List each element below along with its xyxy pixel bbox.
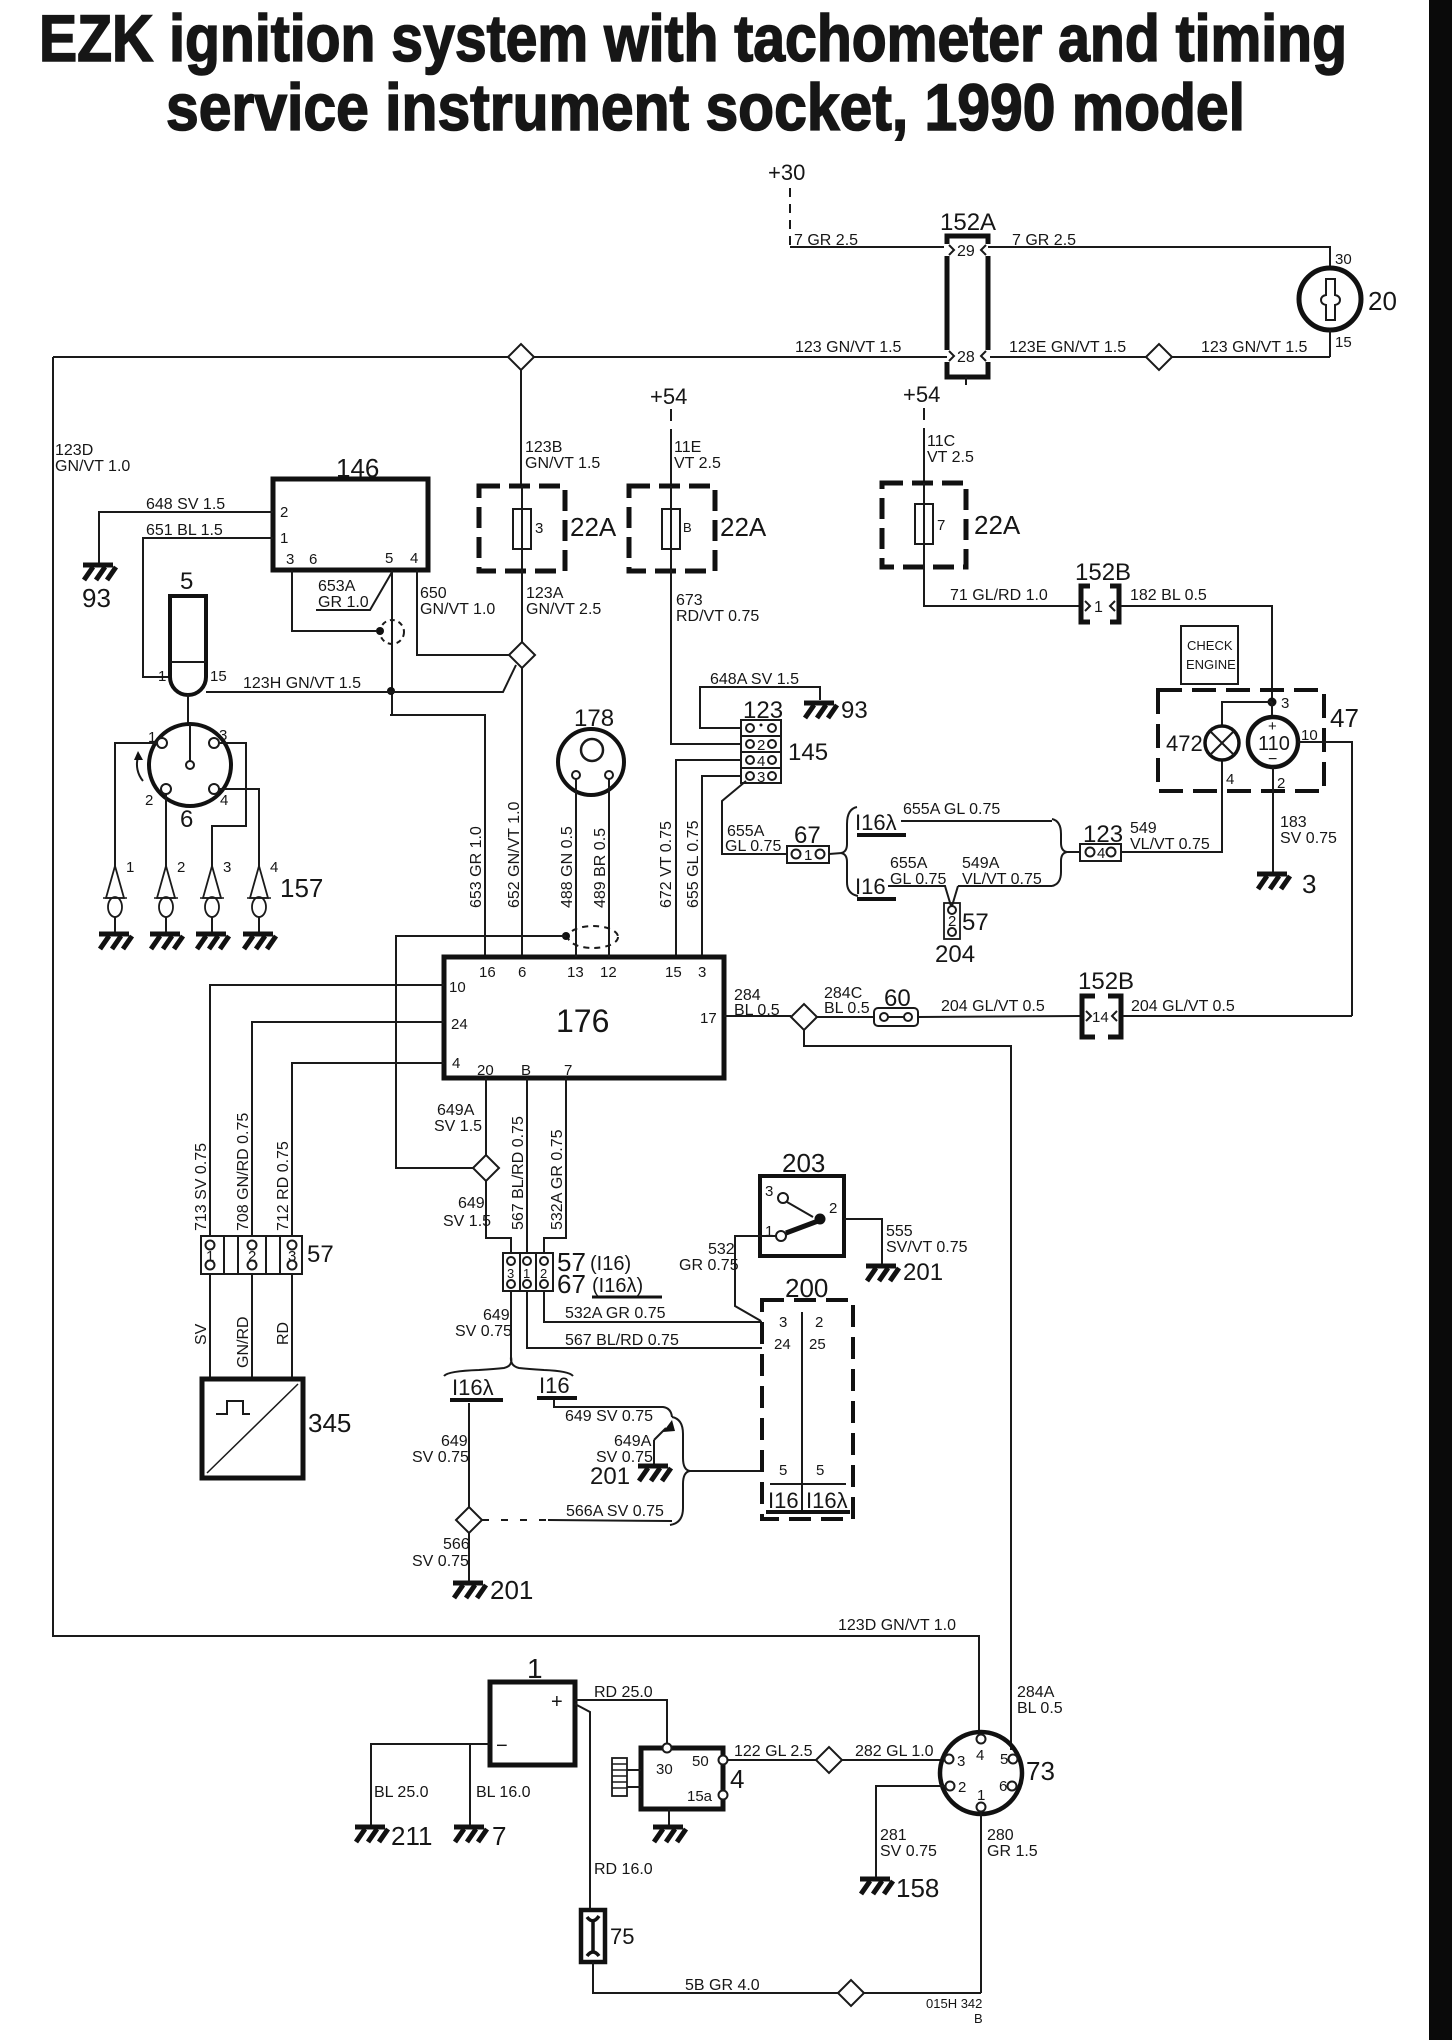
wire 5B GR 4.0	[593, 1962, 981, 1994]
wire 71 GL/RD 1.0	[924, 567, 1079, 606]
ground plug 1	[99, 934, 132, 949]
svg-text:650: 650	[420, 585, 447, 602]
svg-text:4: 4	[976, 1747, 984, 1764]
svg-text:CHECK: CHECK	[1187, 638, 1233, 653]
wire 655A GL 0.75 lower branch	[888, 855, 951, 906]
fuse holder 22A no.B	[629, 486, 767, 571]
svg-text:713 SV 0.75: 713 SV 0.75	[193, 1143, 210, 1231]
svg-text:EZK ignition system with tacho: EZK ignition system with tachometer and …	[39, 1, 1347, 75]
wire BL 25.0	[371, 1744, 490, 1825]
ignition starter switch 4	[641, 1744, 744, 1810]
wire 123B GN/VT 1.5	[521, 370, 600, 486]
ground 201 (bottom left)	[453, 1575, 533, 1605]
drawing number 015H 342 B	[926, 1996, 983, 2026]
svg-text:ENGINE: ENGINE	[1186, 657, 1236, 672]
svg-text:16: 16	[479, 964, 496, 981]
wire 567 BL/RD 0.75 to 200	[527, 1291, 762, 1349]
junction diamond 649	[473, 1155, 499, 1181]
wire 652 GN/VT 1.0	[506, 667, 523, 957]
svg-text:−: −	[496, 1735, 508, 1757]
svg-text:+54: +54	[903, 382, 940, 407]
svg-text:152B: 152B	[1075, 559, 1131, 586]
spark plug 3	[200, 859, 231, 934]
junction diamond 122	[816, 1747, 842, 1773]
svg-text:GR 0.75: GR 0.75	[679, 1257, 739, 1274]
ignition power stage 146	[273, 453, 428, 570]
brace left split	[841, 807, 858, 896]
svg-text:service instrument socket, 199: service instrument socket, 1990 model	[166, 70, 1245, 144]
junction diamond 123A	[509, 642, 535, 668]
wire 123D GN/VT 1.0 left border	[53, 357, 979, 1735]
svg-text:280: 280	[987, 1827, 1014, 1844]
svg-text:4: 4	[1097, 845, 1105, 862]
ground 158	[860, 1873, 939, 1903]
node +54 (left)	[650, 384, 687, 486]
wire 555 SV/VT 0.75	[844, 1219, 968, 1264]
ground plug 3	[196, 934, 229, 949]
svg-text:3: 3	[765, 1183, 773, 1200]
svg-text:BL 25.0: BL 25.0	[374, 1784, 429, 1801]
wire 566A SV 0.75	[482, 1503, 672, 1521]
svg-text:201: 201	[490, 1575, 533, 1605]
brace merge to 200 pin 5	[670, 1417, 690, 1525]
svg-text:+: +	[551, 1691, 563, 1713]
svg-text:3: 3	[698, 964, 706, 981]
wire 653 GR 1.0	[387, 570, 485, 957]
svg-text:1: 1	[280, 530, 288, 547]
svg-text:3: 3	[288, 1248, 296, 1265]
svg-text:5B GR 4.0: 5B GR 4.0	[685, 1977, 760, 1994]
junction diamond 123E	[1146, 344, 1172, 370]
svg-text:204 GL/VT 0.5: 204 GL/VT 0.5	[941, 998, 1045, 1015]
wire plug 3 lead	[212, 743, 246, 868]
connector 152A	[940, 209, 996, 385]
wire 182 BL 0.5	[1121, 587, 1272, 702]
wire plug 2 lead	[165, 794, 167, 868]
wire RD to 345	[275, 1274, 292, 1379]
wire 204 GL/VT 0.5 left	[918, 998, 1080, 1017]
svg-text:549A: 549A	[962, 855, 1000, 872]
node 116 (lower mid)	[537, 1373, 577, 1398]
wire 123H GN/VT 1.5	[206, 665, 516, 692]
wire to 200 pin 5	[690, 1470, 762, 1472]
diagnostic unit 200	[762, 1273, 853, 1519]
test switch 203	[760, 1148, 844, 1256]
svg-text:489 BR 0.5: 489 BR 0.5	[592, 828, 609, 908]
wire 122 GL 2.5	[728, 1743, 816, 1760]
svg-text:472: 472	[1166, 731, 1203, 756]
svg-text:3: 3	[223, 859, 231, 876]
svg-text:145: 145	[788, 739, 828, 766]
svg-text:3: 3	[219, 727, 227, 744]
wire BL 16.0	[470, 1744, 531, 1825]
svg-text:57: 57	[307, 1241, 334, 1268]
svg-text:57: 57	[962, 909, 989, 936]
svg-text:282 GL 1.0: 282 GL 1.0	[855, 1743, 934, 1760]
fuse holder 22A no.7	[882, 483, 1021, 567]
wire 488 GN 0.5	[559, 779, 576, 957]
svg-text:RD/VT 0.75: RD/VT 0.75	[676, 608, 759, 625]
svg-text:649: 649	[441, 1433, 468, 1450]
svg-text:25: 25	[809, 1336, 826, 1353]
instrument unit 47 dashed box	[1158, 690, 1359, 791]
svg-text:73: 73	[1026, 1756, 1055, 1786]
svg-text:VT 2.5: VT 2.5	[927, 449, 974, 466]
ground 3	[1257, 869, 1316, 899]
svg-text:152A: 152A	[940, 209, 996, 236]
svg-text:BL 0.5: BL 0.5	[1017, 1700, 1063, 1717]
wire tach pin 10	[1298, 742, 1352, 1016]
svg-text:17: 17	[700, 1010, 717, 1027]
svg-text:SV 1.5: SV 1.5	[434, 1118, 482, 1135]
wire ECU pin 24 / 708 GN/RD 0.75	[235, 1022, 444, 1236]
svg-text:3: 3	[779, 1314, 787, 1331]
svg-text:4: 4	[410, 550, 418, 567]
wire 284C BL 0.5	[817, 985, 874, 1017]
svg-text:15a: 15a	[687, 1788, 713, 1805]
svg-text:10: 10	[449, 979, 466, 996]
svg-text:5: 5	[816, 1462, 824, 1479]
wire 672 VT 0.75	[658, 760, 741, 957]
svg-text:152B: 152B	[1078, 968, 1134, 995]
svg-text:VL/VT 0.75: VL/VT 0.75	[1130, 836, 1210, 853]
svg-text:20: 20	[477, 1062, 494, 1079]
wire SV to 345	[193, 1274, 210, 1379]
svg-text:1: 1	[1094, 599, 1103, 616]
junction diamond 123 bus	[508, 344, 534, 370]
ECU 176	[444, 957, 724, 1079]
svg-text:2: 2	[829, 1200, 837, 1217]
connector 57 / 204 (inline)	[935, 903, 989, 968]
wire 648A SV 1.5	[700, 671, 820, 728]
svg-text:14: 14	[1092, 1009, 1109, 1026]
battery 1	[490, 1653, 575, 1765]
svg-text:566A SV 0.75: 566A SV 0.75	[566, 1503, 664, 1520]
svg-text:648 SV 1.5: 648 SV 1.5	[146, 496, 225, 513]
svg-text:7: 7	[492, 1821, 506, 1851]
svg-text:157: 157	[280, 873, 323, 903]
wire 673 RD/VT 0.75	[671, 571, 759, 744]
svg-text:22A: 22A	[974, 510, 1021, 540]
wire from 146 pin 3	[292, 570, 377, 631]
spark plug 2	[154, 859, 185, 934]
ground 201 (right)	[866, 1259, 943, 1286]
svg-text:3: 3	[535, 520, 543, 537]
svg-text:15: 15	[1335, 334, 1352, 351]
tachometer 110	[1248, 702, 1318, 792]
svg-text:655A: 655A	[890, 855, 928, 872]
wire 532 GR 0.75	[679, 1236, 776, 1321]
svg-text:2: 2	[815, 1314, 823, 1331]
ground under 4	[653, 1809, 686, 1842]
warning lamp 472	[1166, 726, 1239, 788]
connector 152B pin 1	[1075, 559, 1131, 622]
svg-text:4: 4	[757, 753, 765, 770]
ground 201 (mid)	[590, 1463, 671, 1490]
svg-text:2: 2	[248, 1248, 256, 1265]
svg-text:182 BL 0.5: 182 BL 0.5	[1130, 587, 1207, 604]
svg-text:204: 204	[935, 941, 975, 968]
wire 649 SV 0.75 (from 116)	[554, 1400, 672, 1425]
wire 655A GL 0.75 to 67	[722, 781, 787, 855]
timing instrument 345	[202, 1379, 351, 1478]
wire 648 SV 1.5	[99, 496, 273, 563]
svg-text:712 RD 0.75: 712 RD 0.75	[275, 1141, 292, 1231]
svg-text:122 GL 2.5: 122 GL 2.5	[734, 1743, 813, 1760]
svg-text:567 BL/RD 0.75: 567 BL/RD 0.75	[565, 1332, 679, 1349]
svg-text:653A: 653A	[318, 578, 356, 595]
svg-text:B: B	[974, 2011, 983, 2026]
svg-text:3: 3	[286, 551, 294, 568]
svg-text:204 GL/VT 0.5: 204 GL/VT 0.5	[1131, 998, 1235, 1015]
svg-text:22A: 22A	[720, 512, 767, 542]
wire 7 GR 2.5 left	[790, 232, 947, 249]
svg-text:3: 3	[1281, 695, 1289, 712]
spark plug 1	[103, 859, 134, 934]
svg-text:24: 24	[774, 1336, 791, 1353]
svg-text:13: 13	[567, 964, 584, 981]
svg-text:176: 176	[556, 1003, 609, 1039]
svg-text:GL 0.75: GL 0.75	[725, 838, 781, 855]
svg-text:BL 16.0: BL 16.0	[476, 1784, 531, 1801]
svg-text:+30: +30	[768, 160, 805, 185]
svg-text:SV 1.5: SV 1.5	[443, 1213, 491, 1230]
ignition switch 20	[1299, 268, 1397, 330]
svg-text:5: 5	[779, 1462, 787, 1479]
wire 123 GN/VT 1.5 main bus	[53, 339, 947, 357]
svg-text:75: 75	[610, 1924, 634, 1949]
svg-text:2: 2	[1277, 775, 1285, 792]
svg-text:11E: 11E	[674, 439, 701, 456]
node +30	[768, 160, 805, 247]
wire 183 SV 0.75	[1273, 767, 1337, 872]
svg-text:648A SV 1.5: 648A SV 1.5	[710, 671, 799, 688]
wire 284A BL 0.5	[804, 1030, 1063, 1750]
svg-text:47: 47	[1330, 703, 1359, 733]
svg-text:123B: 123B	[525, 439, 562, 456]
svg-text:158: 158	[896, 1873, 939, 1903]
svg-text:I16: I16	[768, 1488, 799, 1513]
svg-text:6: 6	[999, 1778, 1007, 1795]
wire 11E VT 2.5	[674, 439, 721, 472]
svg-text:6: 6	[180, 806, 193, 833]
svg-text:(I16): (I16)	[590, 1253, 631, 1275]
svg-text:5: 5	[1000, 1751, 1008, 1768]
node +54 (right)	[903, 382, 940, 483]
wire 282 GL 1.0	[842, 1743, 944, 1760]
svg-text:GN/VT 2.5: GN/VT 2.5	[526, 601, 601, 618]
wire 649 SV 1.5	[443, 1181, 511, 1253]
svg-text:5: 5	[180, 568, 193, 595]
svg-text:67: 67	[794, 822, 821, 849]
svg-text:29: 29	[957, 243, 975, 260]
ground plug 2	[150, 934, 183, 949]
svg-text:3: 3	[757, 769, 765, 786]
svg-text:(I16λ): (I16λ)	[592, 1275, 643, 1297]
svg-text:488 GN 0.5: 488 GN 0.5	[559, 826, 576, 908]
svg-text:3: 3	[507, 1266, 514, 1281]
svg-text:566: 566	[443, 1536, 470, 1553]
svg-text:2: 2	[757, 737, 765, 754]
svg-text:1: 1	[527, 1653, 543, 1684]
wire 566 SV 0.75	[412, 1533, 470, 1581]
svg-text:4: 4	[270, 859, 278, 876]
svg-text:I16: I16	[855, 874, 886, 899]
connector 152B pin 14	[1078, 968, 1134, 1037]
svg-text:50: 50	[692, 1753, 709, 1770]
wire node3 to lamp	[1222, 702, 1272, 727]
wire 655 GL 0.75	[685, 776, 741, 957]
svg-text:532A GR 0.75: 532A GR 0.75	[565, 1305, 666, 1322]
ignition coil 5	[158, 568, 227, 724]
svg-text:555: 555	[886, 1223, 913, 1240]
svg-text:203: 203	[782, 1148, 825, 1178]
wire 651 BL 1.5	[143, 522, 273, 677]
svg-text:655A GL 0.75: 655A GL 0.75	[903, 801, 1000, 818]
wire plug 1 lead	[115, 743, 157, 868]
svg-text:649: 649	[483, 1307, 510, 1324]
svg-text:GN/VT 1.5: GN/VT 1.5	[525, 455, 600, 472]
svg-text:7: 7	[937, 517, 945, 534]
svg-text:1: 1	[126, 859, 134, 876]
svg-text:1: 1	[206, 1248, 214, 1265]
svg-text:BL 0.5: BL 0.5	[734, 1002, 780, 1019]
wire plug 4 lead	[219, 789, 259, 868]
node 116 (lower)	[855, 874, 896, 899]
svg-text:2: 2	[540, 1266, 547, 1281]
svg-text:183: 183	[1280, 814, 1307, 831]
svg-text:201: 201	[590, 1463, 630, 1490]
CHECK ENGINE box	[1181, 626, 1238, 684]
svg-text:4: 4	[730, 1764, 744, 1794]
suppressor on coil lead	[376, 620, 404, 644]
svg-text:281: 281	[880, 1827, 907, 1844]
svg-text:GN/VT 1.0: GN/VT 1.0	[420, 601, 495, 618]
wire 650 GN/VT 1.0	[417, 570, 509, 655]
svg-text:2: 2	[177, 859, 185, 876]
svg-text:4: 4	[1226, 771, 1234, 788]
wire 649A SV 1.5	[434, 1078, 486, 1156]
wire 489 BR 0.5	[592, 779, 609, 957]
wire shield drain	[396, 936, 566, 1168]
svg-text:SV: SV	[193, 1323, 210, 1345]
connector 67	[787, 822, 829, 864]
wire 655A GL 0.75 upper branch	[901, 801, 1052, 821]
svg-text:7: 7	[564, 1062, 572, 1079]
spark plug 4	[247, 859, 278, 934]
fuse 75	[581, 1910, 634, 1962]
svg-text:GR 1.5: GR 1.5	[987, 1843, 1038, 1860]
svg-text:672 VT 0.75: 672 VT 0.75	[658, 821, 675, 908]
svg-text:71 GL/RD 1.0: 71 GL/RD 1.0	[950, 587, 1048, 604]
svg-text:123E GN/VT 1.5: 123E GN/VT 1.5	[1009, 339, 1126, 356]
wire 123 GN/VT 1.5 right of switch	[990, 330, 1330, 357]
svg-text:12: 12	[600, 964, 617, 981]
fuse holder 22A no.3	[479, 486, 617, 571]
junction diamond 284	[791, 1004, 817, 1030]
wire 649 SV 0.75 (from 116 lambda)	[412, 1403, 469, 1507]
svg-text:652 GN/VT 1.0: 652 GN/VT 1.0	[506, 801, 523, 908]
svg-text:SV 0.75: SV 0.75	[412, 1449, 469, 1466]
wire 549 VL/VT 0.75	[1121, 760, 1222, 853]
svg-text:67: 67	[557, 1269, 586, 1299]
ground 93 (left)	[82, 565, 116, 613]
ground 93 (right)	[804, 697, 868, 724]
svg-text:RD 16.0: RD 16.0	[594, 1861, 653, 1878]
svg-text:GN/RD: GN/RD	[235, 1316, 252, 1368]
svg-text:RD 25.0: RD 25.0	[594, 1684, 653, 1701]
svg-text:532: 532	[708, 1241, 735, 1258]
wire 204 GL/VT 0.5 right	[1123, 998, 1352, 1016]
svg-text:532A GR 0.75: 532A GR 0.75	[549, 1129, 566, 1230]
svg-text:6: 6	[309, 551, 317, 568]
svg-text:BL 0.5: BL 0.5	[824, 1000, 870, 1017]
ground 211	[355, 1821, 432, 1851]
wire 67 to brace	[829, 853, 842, 854]
node 116 lambda (upper)	[855, 810, 906, 835]
svg-text:345: 345	[308, 1408, 351, 1438]
svg-text:6: 6	[518, 964, 526, 981]
svg-text:2: 2	[280, 504, 288, 521]
svg-text:−: −	[1268, 751, 1277, 768]
ground 7	[454, 1821, 506, 1851]
svg-text:B: B	[521, 1062, 531, 1079]
node 116 lambda (lower left)	[450, 1375, 503, 1400]
ignition switch 73	[940, 1732, 1055, 1814]
connector 123 / 145	[741, 697, 828, 786]
connector 123 pin 4	[1067, 821, 1123, 862]
svg-text:22A: 22A	[570, 512, 617, 542]
wire 549A VL/VT 0.75	[952, 855, 1052, 906]
wire 653A GR 1.0 label	[316, 572, 392, 611]
svg-text:I16λ: I16λ	[855, 810, 897, 835]
svg-text:93: 93	[82, 583, 111, 613]
ground plug 4	[243, 934, 276, 949]
svg-text:1: 1	[765, 1223, 773, 1240]
svg-text:11C: 11C	[927, 433, 955, 450]
svg-text:+54: +54	[650, 384, 687, 409]
svg-text:I16λ: I16λ	[806, 1488, 848, 1513]
svg-text:RD: RD	[275, 1322, 292, 1345]
svg-text:211: 211	[391, 1821, 432, 1851]
svg-text:567 BL/RD 0.75: 567 BL/RD 0.75	[510, 1116, 527, 1230]
wire GN/RD to 345	[235, 1274, 252, 1379]
svg-text:15: 15	[210, 668, 227, 685]
svg-text:4: 4	[452, 1055, 460, 1072]
wire 567 BL/RD 0.75 (upper)	[510, 1078, 527, 1253]
svg-text:I16: I16	[539, 1373, 570, 1398]
svg-text:708 GN/RD 0.75: 708 GN/RD 0.75	[235, 1113, 252, 1231]
rpm sensor 178	[558, 705, 624, 795]
svg-text:3: 3	[957, 1753, 965, 1770]
brace split 116	[444, 1357, 573, 1376]
svg-text:SV/VT 0.75: SV/VT 0.75	[886, 1239, 968, 1256]
brace right merge	[1052, 819, 1067, 886]
svg-text:I16λ: I16λ	[452, 1375, 494, 1400]
svg-text:3: 3	[1302, 869, 1316, 899]
svg-text:2: 2	[958, 1779, 966, 1796]
wire 7 GR 2.5 right	[988, 232, 1330, 268]
svg-text:30: 30	[1335, 251, 1352, 268]
svg-text:SV 0.75: SV 0.75	[1280, 830, 1337, 847]
svg-text:123 GN/VT 1.5: 123 GN/VT 1.5	[1201, 339, 1308, 356]
wire ECU pin 10 / 713 SV 0.75	[193, 985, 444, 1236]
wire 284 BL 0.5	[724, 987, 791, 1019]
svg-text:655 GL 0.75: 655 GL 0.75	[685, 820, 702, 908]
svg-text:649A: 649A	[437, 1102, 475, 1119]
svg-text:15: 15	[665, 964, 682, 981]
svg-text:5: 5	[385, 550, 393, 567]
